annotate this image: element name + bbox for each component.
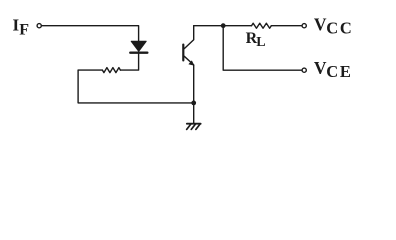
terminal VCE circle — [302, 68, 306, 72]
svg-text:CE: CE — [326, 62, 353, 81]
wire IF to diode anode — [42, 26, 139, 42]
wire node to VCE terminal — [223, 26, 302, 70]
svg-text:L: L — [256, 35, 265, 50]
wire ground stem — [193, 103, 195, 124]
resistor RL — [252, 23, 272, 28]
ground — [187, 124, 201, 130]
label VCC — [314, 14, 354, 37]
terminal VCC circle — [302, 24, 306, 28]
wire resistor to bottom rail — [78, 70, 194, 103]
transistor Q1 (phototransistor) — [183, 26, 194, 103]
wire diode cathode down and left — [121, 53, 139, 70]
node C junction dot — [221, 23, 226, 28]
svg-text:F: F — [19, 21, 29, 38]
wire collector rail to node — [194, 25, 252, 27]
svg-text:CC: CC — [326, 19, 353, 38]
label RL — [246, 30, 266, 50]
node E junction dot — [191, 101, 196, 106]
terminal IF circle — [37, 24, 41, 28]
diode D1 (LED) — [130, 41, 147, 52]
svg-text:V: V — [314, 14, 327, 34]
label VCE — [314, 58, 353, 81]
svg-text:V: V — [314, 58, 327, 78]
resistor R1 — [102, 68, 120, 73]
wire RL to VCC terminal — [271, 25, 302, 27]
label IF — [13, 16, 30, 39]
